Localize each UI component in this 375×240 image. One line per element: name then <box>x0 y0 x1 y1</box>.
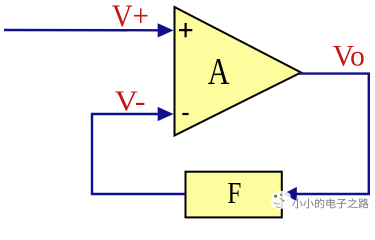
wire feedback bottom: down-right corner to F <box>294 193 370 195</box>
svg-text:F: F <box>227 177 241 211</box>
wire output Vo: apex right then down <box>299 74 369 194</box>
svg-text:A: A <box>208 52 230 93</box>
wire V+ input <box>4 29 160 32</box>
arrowhead into F block <box>283 187 297 201</box>
minus marker (inverting input) <box>182 113 188 115</box>
svg-text:Vo: Vo <box>333 41 365 73</box>
watermark logo <box>270 191 291 210</box>
svg-text:V+: V+ <box>112 0 149 34</box>
watermark text 小小的电子之路 <box>292 198 368 208</box>
svg-text:V-: V- <box>115 85 146 117</box>
plus marker (noninverting input) <box>179 23 192 37</box>
wire feedback left: F left, left, up, right to - input <box>92 114 185 194</box>
arrowhead into - input <box>158 107 174 121</box>
arrowhead into + input <box>158 23 174 37</box>
feedback block F <box>186 172 282 218</box>
op-amp A (amplifier triangle) <box>175 7 302 136</box>
